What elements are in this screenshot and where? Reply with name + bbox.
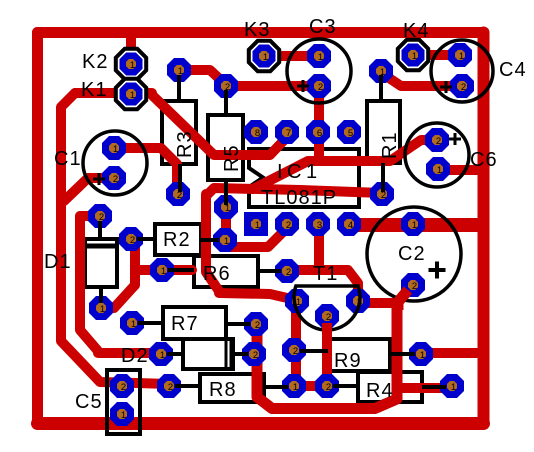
pad R7-2 [244, 312, 268, 336]
pad C1-2 [102, 166, 126, 190]
wire T1 pad1 down through R9 pad2 to R8 pad1 [291, 300, 301, 386]
diode D2 cathode band a [225, 339, 228, 369]
wire diagonal across IC1 to C6 pad2 [253, 140, 436, 189]
wire C2 pad2 down, bottom run, up to R7 pad2 [257, 286, 412, 409]
connector pad K3 [252, 44, 276, 68]
wire IC1 pin4 / C2 pad1 band to right ring [344, 218, 482, 232]
pad R7-1 [120, 311, 144, 335]
pad IC1-1 [244, 212, 268, 236]
svg-text:D2: D2 [121, 345, 149, 367]
pad R6-2 [275, 259, 299, 283]
pad D2-1 [149, 342, 173, 366]
wire K4 to C4 pad1 [416, 50, 458, 60]
svg-text:2: 2 [326, 382, 331, 393]
svg-text:7: 7 [286, 128, 291, 139]
svg-text:R2: R2 [163, 229, 191, 251]
capacitor C4 outline [431, 40, 493, 102]
svg-text:K2: K2 [82, 51, 108, 73]
wire T1 pad2 trace over outline [322, 323, 332, 338]
lead R6-2 [258, 269, 281, 273]
connector pad K4 [401, 43, 425, 67]
lead R1-2 [381, 163, 385, 192]
wire C3 pad2 down to IC1 pin6 [314, 86, 324, 132]
wire T1 pad3 to C2 pad2 junction [362, 298, 397, 308]
lead R3-2 [178, 164, 182, 192]
svg-text:1: 1 [263, 52, 268, 63]
svg-text:R6: R6 [203, 263, 231, 285]
svg-text:1: 1 [318, 52, 323, 63]
pad R3-2 [166, 182, 190, 206]
svg-text:C6: C6 [470, 149, 498, 171]
pad R2-2 [119, 227, 143, 251]
svg-text:TL081P: TL081P [261, 187, 337, 209]
transistor T1 outline [294, 286, 360, 330]
resistor R8 outline [200, 374, 264, 402]
lead R7-1 [138, 321, 163, 325]
pad D1-1 [89, 296, 113, 320]
pad R9-1 [409, 342, 433, 366]
polarity mark C1 [93, 173, 105, 185]
svg-text:1: 1 [412, 51, 417, 62]
pad C3-1 [307, 44, 331, 68]
pad R4-2 [315, 374, 339, 398]
svg-text:2: 2 [293, 346, 298, 357]
wire R5 pad1 / R2 pad1 to IC1 pin2 [226, 207, 288, 247]
pad T1-1 [285, 289, 309, 313]
pad R6-1 [150, 258, 174, 282]
svg-text:2: 2 [168, 382, 173, 393]
polarity mark C6 [449, 133, 461, 145]
svg-text:6: 6 [317, 128, 322, 139]
wire board outline ring top [38, 27, 484, 38]
wire board outline ring left [32, 33, 43, 424]
svg-text:K1: K1 [81, 79, 107, 101]
lead R7-2 [226, 322, 250, 326]
wire R6 pad2 to T1 pad3 [288, 270, 358, 300]
svg-text:4: 4 [348, 220, 353, 231]
svg-text:2: 2 [286, 267, 291, 278]
capacitor C1 outline [83, 131, 147, 195]
wire vertical x206 down to T1 pad1 [206, 194, 296, 300]
lead D2-2 [233, 352, 248, 356]
svg-text:C3: C3 [309, 16, 337, 38]
lead R3-1 [177, 75, 181, 101]
svg-text:1: 1 [412, 220, 417, 231]
pad T1-2 [315, 304, 339, 328]
lead D1-1 [99, 287, 103, 303]
svg-text:2: 2 [113, 174, 118, 185]
pad IC1-4 [337, 212, 361, 236]
lead R8-2 [175, 384, 200, 388]
lead R5-2 [224, 90, 228, 115]
wire K3 to C3 pad1 [266, 51, 316, 61]
wire K2 stub to top ring [126, 36, 136, 62]
resistor R5 outline [208, 115, 243, 180]
svg-text:1: 1 [130, 90, 135, 101]
svg-text:C1: C1 [54, 148, 82, 170]
polarity mark C3 [297, 80, 309, 92]
pad C6-1 [426, 157, 450, 181]
pad C2-1 [401, 212, 425, 236]
wire C2 pad2 trace over outline [398, 290, 408, 310]
polarity mark C2 [429, 262, 446, 279]
svg-text:1: 1 [160, 350, 165, 361]
svg-text:IC1: IC1 [277, 161, 322, 183]
svg-text:8: 8 [255, 128, 260, 139]
wire D1 pad2 stub [80, 211, 100, 221]
wire R9 pad1 to right ring [421, 348, 479, 358]
pad D1-2 cathode [88, 204, 112, 228]
capacitor C2 outline [367, 207, 461, 301]
pad IC1-2 [275, 212, 299, 236]
svg-text:2: 2 [326, 312, 331, 323]
svg-text:C2: C2 [398, 243, 426, 265]
svg-text:T1: T1 [313, 263, 338, 285]
pad IC1-3 [306, 212, 330, 236]
diode D1 outline [85, 239, 117, 287]
pad R1-2 [370, 182, 394, 206]
pad R2-1 [213, 228, 237, 252]
lead R4-2 [333, 384, 358, 388]
wire R5 pad2 to C3 pad2 [226, 81, 318, 91]
pad C5-2 [110, 374, 134, 398]
wire band to R1 pad2 [206, 188, 382, 196]
connector K1 outline ring [118, 81, 144, 107]
wire R3 pad1 to R5 pad2 [179, 70, 226, 85]
pad IC1-6 [306, 120, 330, 144]
pad R3-1 [167, 58, 191, 82]
connector K3 outline ring [251, 43, 277, 69]
pad C5-1 [110, 402, 134, 426]
wire junction to R4 pad1 [397, 383, 450, 393]
pad R1-1 [369, 59, 393, 83]
lead R6-1 [168, 268, 194, 272]
pad R8-1 [282, 374, 306, 398]
svg-text:R7: R7 [171, 313, 199, 335]
wire IC1 pin3 down [314, 225, 324, 267]
resistor R4 outline [358, 372, 422, 402]
svg-text:1: 1 [255, 220, 260, 231]
pad IC1-8 [244, 120, 268, 144]
resistor R3 outline [162, 101, 196, 164]
svg-text:1: 1 [420, 350, 425, 361]
pad R4-1 [440, 374, 464, 398]
svg-text:R8: R8 [209, 379, 237, 401]
svg-text:2: 2 [286, 220, 291, 231]
wire board outline ring right [478, 33, 490, 424]
resistor R2 outline [155, 224, 201, 255]
resistor R9 outline [328, 339, 390, 371]
svg-text:R4: R4 [366, 380, 394, 402]
diode D1 cathode band [85, 244, 117, 249]
resistor R6 outline [194, 256, 258, 287]
svg-text:1: 1 [293, 382, 298, 393]
wire C1 pad1 to R3 pad2 [114, 148, 177, 193]
pad C4-1 [448, 43, 472, 67]
wire K1 left / V1 down to C5 pad2 / R8 pad2 [61, 93, 170, 384]
pad R5-2 [214, 74, 238, 98]
wire T1 pad2 down to R4 pad2 [322, 316, 332, 386]
svg-text:K4: K4 [403, 20, 429, 42]
connector K2 outline ring [118, 51, 144, 77]
svg-text:1: 1 [131, 319, 136, 330]
svg-text:2: 2 [461, 82, 466, 93]
svg-text:3: 3 [317, 220, 322, 231]
svg-text:1: 1 [130, 60, 135, 71]
wire C1 pad2 stub to V1 [64, 178, 114, 201]
diode D2 cathode band b [230, 339, 233, 369]
svg-text:1: 1 [161, 266, 166, 277]
svg-text:1: 1 [224, 236, 229, 247]
diode D2 outline [183, 339, 233, 369]
pad T1-3 [346, 289, 370, 313]
wire K1 right diagonal to IC1 pin7 [152, 95, 287, 155]
connector K4 outline ring [400, 42, 426, 68]
svg-text:1: 1 [113, 144, 118, 155]
svg-text:K3: K3 [244, 19, 270, 41]
svg-text:2: 2 [253, 350, 258, 361]
wire D1 pad1 up to R2 pad2 [101, 240, 135, 308]
pad C3-2 [307, 74, 331, 98]
pad IC1-7 [275, 120, 299, 144]
wire V2 D1 pad2 to D2 pad1 [80, 216, 160, 353]
svg-text:C4: C4 [499, 59, 527, 81]
svg-text:1: 1 [121, 410, 126, 421]
svg-text:1: 1 [451, 382, 456, 393]
pad C6-2 [425, 128, 449, 152]
svg-text:2: 2 [412, 281, 417, 292]
lead D1-2 [98, 221, 102, 239]
svg-text:2: 2 [121, 382, 126, 393]
wire C6 pad1 to right ring [442, 165, 479, 175]
polarity mark C4 [440, 81, 452, 93]
lead R8-1 [264, 385, 288, 389]
lead R9-2 [300, 349, 328, 353]
wire R6 pad1 stub [135, 265, 192, 275]
lead D2-1 [167, 352, 183, 356]
wire R8 pad1 to R4 pad2 [294, 381, 327, 391]
svg-text:2: 2 [318, 82, 323, 93]
lead R2-1 [201, 238, 219, 242]
svg-text:D1: D1 [44, 251, 72, 273]
wire IC1 pin6 stub down [314, 132, 324, 161]
pad C1-1 [102, 136, 126, 160]
lead R5-1 [224, 180, 228, 205]
connector pad K2 [119, 52, 143, 76]
svg-text:1: 1 [437, 165, 442, 176]
svg-text:C5: C5 [75, 391, 103, 413]
svg-text:R9: R9 [334, 350, 362, 372]
op-amp IC1 outline (DIP-8) [249, 149, 359, 207]
wire R1 pad1 to C4 pad2 [383, 74, 460, 86]
resistor R1 outline [367, 101, 400, 163]
svg-text:2: 2 [130, 235, 135, 246]
svg-text:2: 2 [436, 136, 441, 147]
capacitor C5 outline [107, 370, 140, 434]
pad D2-2 cathode [242, 342, 266, 366]
svg-text:1: 1 [459, 51, 464, 62]
connector pad K1 [119, 82, 143, 106]
pad C4-2 [450, 74, 474, 98]
svg-text:2: 2 [255, 320, 260, 331]
svg-text:R1: R1 [379, 131, 401, 159]
wire K1 horizontal [75, 88, 152, 98]
wire board outline ring bottom [38, 417, 484, 430]
pad C2-2 [401, 273, 425, 297]
lead R9-1 [390, 352, 415, 356]
lead R1-1 [379, 75, 383, 101]
svg-text:5: 5 [348, 128, 353, 139]
svg-text:1: 1 [100, 304, 105, 315]
svg-text:R3: R3 [174, 130, 196, 158]
lead R4-1 [422, 385, 446, 389]
lead R2-2 [137, 237, 155, 241]
capacitor C6 outline [405, 123, 469, 187]
pad R8-2 [157, 374, 181, 398]
resistor R7 outline [163, 307, 226, 339]
capacitor C3 outline [287, 39, 351, 103]
svg-text:R5: R5 [221, 144, 243, 172]
pad IC1-5 [337, 120, 361, 144]
pad R5-1 [214, 195, 238, 219]
pad R9-2 [282, 338, 306, 362]
